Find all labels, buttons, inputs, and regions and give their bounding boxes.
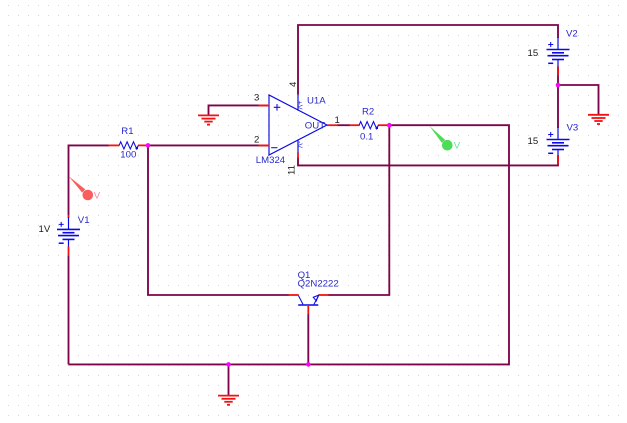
svg-text:-V: -V xyxy=(295,141,302,148)
svg-text:11: 11 xyxy=(287,165,298,175)
svg-text:U1A: U1A xyxy=(307,96,326,107)
svg-text:V2: V2 xyxy=(566,29,578,40)
source V2 xyxy=(547,37,570,76)
wire: left loop V1 top up to R1 row xyxy=(69,145,109,215)
svg-text:Q2N2222: Q2N2222 xyxy=(298,279,339,290)
svg-text:2: 2 xyxy=(254,134,259,145)
svg-text:100: 100 xyxy=(120,149,136,160)
ground at op-amp pin3 xyxy=(198,115,219,124)
wire: bottom ground stem xyxy=(228,364,230,395)
voltage probe (green) on output net xyxy=(430,126,461,151)
op-amp pin 11 (V-) lead xyxy=(297,140,299,153)
voltage probe (red) on V1 net xyxy=(69,176,101,201)
resistor R2 xyxy=(350,122,389,129)
svg-text:3: 3 xyxy=(254,92,259,103)
ground at bottom rail xyxy=(218,396,239,405)
wire: V1 bottom down to ground rail xyxy=(68,256,70,365)
svg-text:1V: 1V xyxy=(39,224,51,235)
junction R2/output net xyxy=(387,123,392,128)
wire: junction right to ground stem xyxy=(557,85,599,115)
svg-text:V1: V1 xyxy=(78,215,90,226)
wire: R1 junction right to op-amp pin2 xyxy=(148,144,269,146)
svg-text:R1: R1 xyxy=(121,126,133,137)
junction ground / rail xyxy=(226,362,231,367)
junction R1/pin2/feedback xyxy=(146,143,151,148)
svg-text:OUT: OUT xyxy=(305,121,325,132)
svg-text:LM324: LM324 xyxy=(256,155,286,166)
svg-text:15: 15 xyxy=(528,136,539,147)
wire: R1 junction down and right to Q1 collector xyxy=(148,145,289,295)
op-amp pin 3 stub xyxy=(259,104,270,106)
source V3 xyxy=(547,127,570,164)
wire: Q1 emitter right, up to R2 junction, right, down to bottom rail, left to V1 xyxy=(69,125,510,364)
junction V2/V3/ground xyxy=(556,83,561,88)
op-amp pin 4 (V+) lead xyxy=(297,95,299,111)
op-amp output pin 1 stub xyxy=(327,124,338,126)
resistor R1 xyxy=(109,142,148,149)
svg-text:+V: +V xyxy=(295,101,302,110)
svg-text:R2: R2 xyxy=(362,106,374,117)
svg-text:0.1: 0.1 xyxy=(360,131,373,142)
wire: V3 minus down, left along y=165 to op-amp pin 11 xyxy=(298,156,558,166)
svg-text:V: V xyxy=(454,140,461,151)
op-amp pin 2 stub xyxy=(259,144,270,146)
svg-text:V3: V3 xyxy=(567,123,579,134)
wire: op-amp output to R2 xyxy=(337,124,350,126)
wire: top rail from op-amp pin4 up and right to V2 plus xyxy=(298,25,558,95)
junction Q1 base / rail xyxy=(306,362,311,367)
ground at top right xyxy=(588,115,609,124)
wire: Q1 base down to bottom rail xyxy=(307,314,309,364)
svg-text:15: 15 xyxy=(528,48,539,59)
op-amp U1A body xyxy=(269,95,327,155)
transistor Q1 xyxy=(289,295,329,315)
svg-text:V: V xyxy=(94,191,101,202)
source V1 xyxy=(57,215,80,256)
svg-text:1: 1 xyxy=(335,115,340,126)
wire: op-amp pin3 left to ground stem xyxy=(209,105,269,115)
wire: V2 minus down to junction and V3 plus xyxy=(557,67,559,129)
svg-text:4: 4 xyxy=(288,81,299,87)
